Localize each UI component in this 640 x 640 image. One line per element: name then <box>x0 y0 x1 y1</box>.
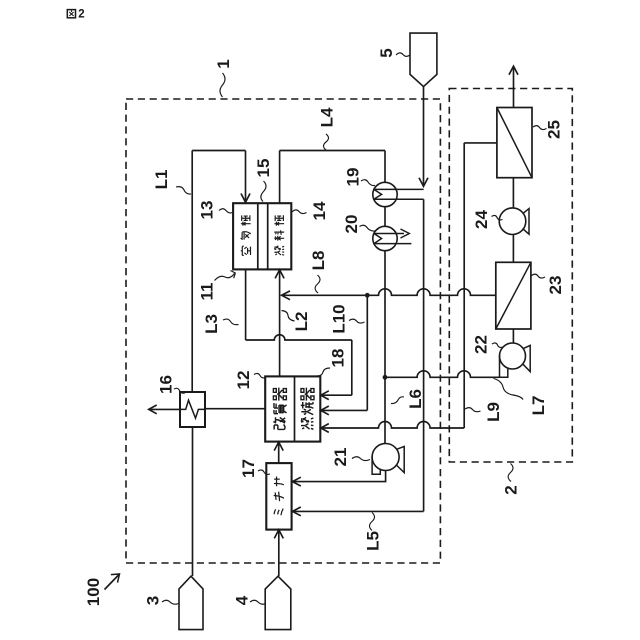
leader squiggle 24 <box>492 215 503 219</box>
leader squiggle L5 <box>370 513 375 531</box>
leader squiggle 18 <box>317 368 330 376</box>
leader squiggle 3 <box>162 600 179 604</box>
arrowhead L10 into combustor <box>321 406 329 415</box>
leader squiggle 13 <box>219 209 233 213</box>
svg-text:21: 21 <box>331 448 350 467</box>
leader squiggle for 1 <box>220 73 225 97</box>
svg-text:23: 23 <box>546 276 565 295</box>
arrowhead into mixer bottom <box>274 530 283 539</box>
junction dot L6/L7 <box>383 375 388 380</box>
svg-text:L9: L9 <box>484 402 503 422</box>
leader squiggle L6 <box>391 397 404 404</box>
condenser 23 <box>496 262 531 329</box>
leader squiggle 2 <box>508 464 513 482</box>
svg-text:3: 3 <box>144 596 163 605</box>
exhaust arrow out of 16 <box>150 408 181 410</box>
heat exchanger 16 <box>180 392 205 427</box>
fuel tank 5 <box>410 33 437 87</box>
svg-text:12: 12 <box>234 371 253 390</box>
leader squiggle 25 <box>533 126 547 130</box>
wire into air electrode top <box>245 151 247 202</box>
leader squiggle 12 <box>254 373 266 377</box>
svg-text:2: 2 <box>502 485 521 494</box>
wire from tank 5 down <box>423 87 425 185</box>
svg-text:L2: L2 <box>292 312 311 332</box>
reformer text 改質器 <box>273 388 286 430</box>
arrowhead into mixer upper <box>292 477 300 486</box>
svg-text:25: 25 <box>545 120 564 139</box>
leader squiggle L3 <box>223 319 239 325</box>
svg-text:L6: L6 <box>406 389 425 409</box>
arrowhead into mixer lower <box>292 507 300 516</box>
reformer/combustor box 12 <box>265 376 320 441</box>
arrowhead L2 into fuel electrode <box>275 270 284 279</box>
arrowhead into air electrode <box>241 194 250 203</box>
exhaust arrow out of canister 25 <box>513 68 515 108</box>
svg-text:13: 13 <box>198 201 217 220</box>
wire L5 horizontal to mixer <box>293 510 423 512</box>
svg-text:L4: L4 <box>318 107 337 127</box>
leader squiggle 20 <box>360 225 376 231</box>
svg-text:17: 17 <box>239 459 258 478</box>
leader squiggle 16 <box>174 388 185 393</box>
leader squiggle L10 <box>349 319 365 323</box>
wire L6 vertical (HX20 to pump 21) <box>384 251 386 444</box>
leader squiggle 22 <box>492 343 503 347</box>
wire between heat exchangers 19 and 20 <box>384 207 386 227</box>
wire L7 (branch from L6 to pump 22) <box>385 371 499 378</box>
leader squiggle L1 <box>176 187 191 194</box>
leader squiggle 14 <box>292 210 307 214</box>
svg-text:L5: L5 <box>364 531 383 551</box>
svg-text:L10: L10 <box>330 304 349 333</box>
leader squiggle 21 <box>352 457 370 461</box>
combustor text 燃焼器 <box>301 388 314 430</box>
figure title 図2 <box>67 9 84 21</box>
svg-text:15: 15 <box>254 159 273 178</box>
mixer text ミキサ <box>274 477 284 516</box>
svg-text:22: 22 <box>472 335 491 354</box>
wire L4 horizontal <box>280 150 385 152</box>
fuel tank 4 <box>265 576 291 629</box>
svg-text:1: 1 <box>214 59 233 68</box>
svg-text:11: 11 <box>198 283 217 301</box>
leader squiggle L9 <box>465 408 481 412</box>
arrowhead L3 into combustor <box>321 391 329 400</box>
svg-text:L8: L8 <box>309 251 328 271</box>
svg-text:L7: L7 <box>529 396 548 416</box>
svg-text:19: 19 <box>344 168 363 187</box>
wire L8 (condenser 23 to fuel line) <box>283 289 496 295</box>
electrolyte 15 lines <box>258 203 268 269</box>
wire L3 (air electrode to combustor) <box>245 269 247 340</box>
wire mixer to reformer <box>278 443 280 463</box>
arrowhead tank5 line <box>419 178 428 187</box>
arrowhead out of 20 <box>401 229 410 238</box>
leader squiggle 4 <box>250 600 266 604</box>
leader squiggle 5 <box>396 53 410 57</box>
fuel electrode text 燃料極 <box>274 215 284 255</box>
wire L5 vertical <box>423 199 425 511</box>
leader squiggle 17 <box>258 470 270 474</box>
leader squiggle L4 <box>324 134 329 150</box>
wire blower 24 to condenser 23 <box>512 235 514 263</box>
mixer 17 box <box>266 463 291 529</box>
blower 24 <box>499 208 526 235</box>
blower 22 <box>500 343 526 369</box>
wire L1 top horizontal <box>192 150 245 152</box>
leader squiggle L8 <box>315 275 320 293</box>
wire L9 (from canister 25 down into combustor) <box>464 142 497 144</box>
junction dot L8/L10 <box>365 293 370 298</box>
blower 21 <box>372 444 399 471</box>
svg-text:20: 20 <box>342 215 361 234</box>
leader squiggle L7 <box>494 379 524 400</box>
svg-text:L3: L3 <box>202 314 221 334</box>
arrowhead L9 into combustor <box>321 424 329 433</box>
wire L10 (branch to combustor) <box>366 295 368 410</box>
svg-text:4: 4 <box>233 595 252 605</box>
arrowhead L8 <box>282 291 290 300</box>
wire tank 4 up to mixer <box>278 531 280 576</box>
leader squiggle 23 <box>532 274 546 278</box>
svg-text:14: 14 <box>310 201 329 220</box>
svg-text:2: 2 <box>78 9 84 21</box>
wire 16 to reformer left <box>205 408 265 410</box>
water tank 3 <box>179 576 203 629</box>
svg-text:16: 16 <box>157 375 176 394</box>
leader squiggle L2 <box>282 311 295 322</box>
heat exchanger 20 <box>373 226 397 250</box>
wire heat exchanger 16 down to tank 3 <box>192 427 194 576</box>
wire L2 (reformer to fuel electrode) <box>279 271 281 376</box>
wire L4 down into heat exchanger 19 <box>384 151 386 183</box>
canister 25 <box>497 108 532 178</box>
arrow for 100 <box>105 574 120 590</box>
svg-text:L1: L1 <box>152 170 171 190</box>
wire condenser 23 to blower 22 <box>512 329 514 343</box>
svg-text:5: 5 <box>377 48 396 57</box>
arrowhead into reformer bottom <box>274 442 283 451</box>
dashed subsystem box 2 <box>449 89 572 463</box>
leader squiggle 15 <box>261 181 266 202</box>
fuel cell 11 outer box <box>233 203 291 269</box>
air electrode text 空気極 <box>241 215 251 255</box>
leader squiggle 19 <box>361 180 375 186</box>
svg-text:18: 18 <box>329 349 348 368</box>
leader squiggle 11 <box>215 274 235 281</box>
wire canister 25 to blower 24 <box>512 178 514 208</box>
svg-text:24: 24 <box>472 210 491 229</box>
heat exchanger 19 <box>373 182 397 206</box>
wire L1 vertical upper (to heat exchanger 16) <box>191 151 193 393</box>
dashed system boundary box 1 <box>126 99 440 563</box>
svg-text:100: 100 <box>84 578 103 606</box>
wire from fuel electrode top <box>279 151 281 204</box>
blower 21 outlet wire to mixer <box>293 471 385 482</box>
